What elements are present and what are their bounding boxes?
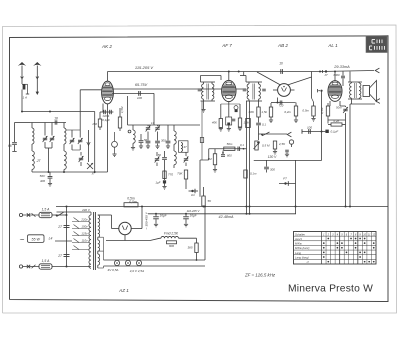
svg-text:0,5m: 0,5m bbox=[127, 197, 135, 201]
svg-text:110v: 110v bbox=[81, 238, 88, 242]
svg-text:100: 100 bbox=[307, 125, 312, 129]
svg-text:Lang (lang): Lang (lang) bbox=[295, 256, 309, 260]
svg-text:L4: L4 bbox=[49, 236, 53, 240]
svg-text:600: 600 bbox=[227, 154, 232, 158]
svg-text:4V 0,5A: 4V 0,5A bbox=[107, 268, 118, 272]
svg-text:10: 10 bbox=[279, 62, 283, 66]
svg-text:0,1μF: 0,1μF bbox=[102, 118, 110, 122]
svg-text:0,5 M: 0,5 M bbox=[262, 144, 270, 148]
svg-text:1 A: 1 A bbox=[23, 96, 27, 100]
svg-text:AL 1: AL 1 bbox=[327, 43, 338, 48]
svg-text:13: 13 bbox=[151, 121, 155, 125]
svg-text:0,5m: 0,5m bbox=[302, 109, 309, 113]
svg-text:47: 47 bbox=[183, 145, 187, 149]
svg-text:Ω1: Ω1 bbox=[191, 193, 195, 197]
svg-text:0,1: 0,1 bbox=[240, 143, 244, 147]
svg-text:720: 720 bbox=[279, 104, 284, 108]
svg-text:68: 68 bbox=[8, 144, 12, 148]
svg-text:AK 2: AK 2 bbox=[101, 44, 112, 49]
svg-text:220v: 220v bbox=[80, 217, 88, 221]
svg-text:18: 18 bbox=[54, 117, 58, 121]
svg-text:1,5k: 1,5k bbox=[261, 110, 267, 114]
svg-text:29-33mA: 29-33mA bbox=[333, 65, 350, 69]
svg-text:Lang: Lang bbox=[295, 251, 301, 255]
svg-text:M/Kw (kurz): M/Kw (kurz) bbox=[295, 246, 309, 250]
svg-text:AZ 1: AZ 1 bbox=[118, 288, 129, 293]
svg-text:50: 50 bbox=[158, 153, 162, 157]
svg-text:365: 365 bbox=[187, 246, 192, 250]
svg-text:Minerva Presto W: Minerva Presto W bbox=[288, 284, 373, 295]
svg-text:Aus/1: Aus/1 bbox=[294, 237, 302, 241]
svg-text:1μF: 1μF bbox=[155, 181, 160, 185]
svg-text:16μF: 16μF bbox=[160, 214, 168, 218]
svg-text:M/Kw: M/Kw bbox=[295, 242, 303, 246]
svg-text:16μF: 16μF bbox=[190, 214, 198, 218]
svg-text:1M: 1M bbox=[207, 157, 212, 161]
svg-text:0,1m: 0,1m bbox=[250, 172, 257, 176]
svg-text:100: 100 bbox=[137, 96, 142, 100]
svg-text:250: 250 bbox=[91, 122, 97, 126]
svg-text:300: 300 bbox=[270, 168, 275, 172]
svg-text:Fmd 2,5K: Fmd 2,5K bbox=[164, 232, 179, 236]
svg-text:400: 400 bbox=[40, 179, 45, 183]
svg-text:125v: 125v bbox=[81, 231, 88, 235]
svg-text:J7: J7 bbox=[324, 73, 328, 77]
svg-text:240 V: 240 V bbox=[81, 208, 91, 212]
svg-text:55 W: 55 W bbox=[32, 238, 41, 242]
svg-text:∼: ∼ bbox=[19, 237, 25, 244]
svg-text:130 V: 130 V bbox=[268, 155, 277, 159]
svg-text:1,5 A: 1,5 A bbox=[42, 208, 51, 212]
svg-text:0,1μF: 0,1μF bbox=[331, 130, 339, 134]
svg-text:800: 800 bbox=[169, 244, 174, 248]
svg-text:ZF = 126,5 kHz: ZF = 126,5 kHz bbox=[244, 273, 276, 278]
svg-text:300: 300 bbox=[161, 139, 166, 143]
svg-text:0,2m: 0,2m bbox=[284, 110, 291, 114]
svg-text:115-205 V: 115-205 V bbox=[135, 65, 153, 70]
svg-text:50m: 50m bbox=[336, 106, 342, 110]
svg-text:AB 2: AB 2 bbox=[277, 43, 288, 48]
svg-text:4,0 V 2,5A: 4,0 V 2,5A bbox=[130, 269, 144, 273]
svg-text:1,5M: 1,5M bbox=[120, 106, 124, 113]
svg-text:1,5 A: 1,5 A bbox=[42, 259, 51, 263]
svg-text:AF 7: AF 7 bbox=[221, 43, 232, 48]
svg-text:50m: 50m bbox=[227, 142, 233, 146]
svg-text:42-48mA: 42-48mA bbox=[219, 215, 235, 219]
svg-text:150v: 150v bbox=[81, 224, 88, 228]
svg-text:0,5m: 0,5m bbox=[129, 200, 137, 204]
svg-text:2,5K: 2,5K bbox=[278, 142, 286, 146]
svg-text:0,1: 0,1 bbox=[262, 123, 266, 127]
svg-text:65-75V: 65-75V bbox=[135, 83, 148, 87]
svg-text:770: 770 bbox=[168, 173, 173, 177]
svg-text:Schalter: Schalter bbox=[295, 232, 305, 236]
svg-text:∼ 300-450 V: ∼ 300-450 V bbox=[145, 211, 149, 230]
svg-text:6000: 6000 bbox=[334, 73, 340, 77]
svg-text:F7: F7 bbox=[283, 177, 287, 181]
